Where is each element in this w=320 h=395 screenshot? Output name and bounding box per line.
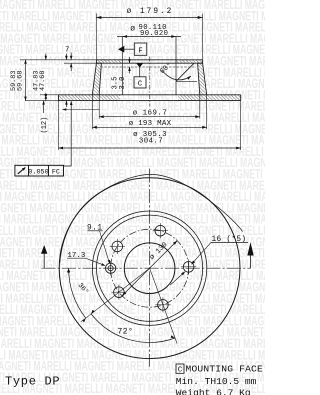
dim dia193 ext lines bbox=[91, 95, 93, 130]
runout leader bbox=[64, 101, 72, 166]
dim dia130 diagonal line bbox=[122, 241, 177, 296]
runout symbol bbox=[18, 168, 26, 174]
svg-text:7: 7 bbox=[65, 47, 69, 55]
svg-text:FC: FC bbox=[52, 169, 60, 177]
bolt circle (dash-dot) bbox=[111, 229, 189, 307]
dim 3.5/3.0 arrows bbox=[129, 57, 131, 63]
note datum C box bbox=[176, 364, 184, 373]
svg-text:36°: 36° bbox=[76, 281, 91, 296]
ext ring bottom left bbox=[25, 100, 59, 102]
datum F leader bbox=[124, 48, 134, 50]
section arrow left bbox=[43, 253, 45, 269]
svg-text:0.050: 0.050 bbox=[28, 169, 48, 177]
bolt hole 2 bbox=[155, 225, 166, 236]
svg-text:304.7: 304.7 bbox=[139, 138, 163, 146]
dim dia193 line bbox=[92, 126, 206, 128]
leader arc to 16(x5) label bbox=[60, 174, 243, 263]
svg-text:72°: 72° bbox=[118, 328, 134, 337]
locating screw hole dia9.1/17.3 bbox=[106, 263, 116, 273]
dim 47.83 line bbox=[45, 54, 47, 60]
svg-text:Type DP: Type DP bbox=[5, 375, 60, 389]
hat base circle dia193 bbox=[92, 211, 206, 325]
friction ring outline bbox=[59, 94, 93, 96]
radial line 218deg bbox=[81, 268, 150, 322]
ext ring top left bbox=[40, 94, 59, 96]
svg-text:ø 193 MAX: ø 193 MAX bbox=[129, 120, 172, 128]
friction ring left hatched section bbox=[59, 95, 121, 101]
svg-text:C: C bbox=[138, 81, 143, 89]
dim dia90.110/90.020 line bbox=[117, 36, 181, 38]
dim 59.83 line bbox=[25, 60, 27, 101]
36deg angle arc bbox=[69, 268, 86, 318]
dim line at ring bottom bbox=[65, 54, 67, 60]
svg-text:Weight 6.7 Kg: Weight 6.7 Kg bbox=[176, 387, 251, 395]
runout tolerance frame box bbox=[15, 165, 64, 176]
chamfer angle reference line bbox=[176, 80, 197, 82]
flange circle dia179 bbox=[97, 215, 203, 321]
svg-text:Min. TH10.5 mm: Min. TH10.5 mm bbox=[176, 376, 257, 387]
opposing arrow at bolt hole bbox=[170, 272, 185, 285]
dim 7 arrows bbox=[70, 53, 72, 60]
dim dia179.2 line bbox=[96, 17, 202, 19]
svg-text:C: C bbox=[178, 367, 183, 375]
svg-text:59.68: 59.68 bbox=[17, 71, 25, 91]
flange end edges bbox=[95, 60, 97, 63]
ext mounting face top bbox=[20, 59, 96, 61]
dim dia305.3 ext lines bbox=[58, 101, 60, 150]
leader under ring bbox=[62, 109, 99, 111]
svg-text:ø 169.7: ø 169.7 bbox=[133, 110, 168, 118]
svg-text:F: F bbox=[138, 48, 143, 56]
bore chamfer cone 60deg bbox=[176, 63, 194, 81]
svg-text:ø 179.2: ø 179.2 bbox=[127, 8, 174, 16]
horizontal centerline bbox=[42, 267, 251, 269]
datum C triangle bbox=[136, 63, 143, 67]
72deg angle arc bbox=[91, 314, 175, 343]
svg-text:ø: ø bbox=[130, 25, 135, 34]
hat flange hatched right bbox=[176, 60, 203, 63]
dim dia179.2 extension lines bbox=[95, 14, 97, 60]
section centerline bbox=[149, 57, 151, 107]
datum C box bbox=[134, 77, 146, 88]
dim dia305.3 line bbox=[59, 147, 241, 149]
vertical centerline bbox=[149, 169, 151, 367]
section arrow right bbox=[250, 255, 252, 269]
svg-text:3.0: 3.0 bbox=[119, 77, 127, 90]
datum F box bbox=[134, 43, 147, 55]
right hat wall hatched bbox=[198, 63, 207, 95]
dim dia169.7 line bbox=[99, 116, 200, 118]
friction ring right hatched section bbox=[178, 95, 241, 101]
hat flange hatched left bbox=[96, 60, 122, 63]
hidden line (pad surface) bbox=[101, 66, 197, 68]
svg-text:(12): (12) bbox=[41, 117, 49, 134]
center bore circle bbox=[124, 243, 175, 294]
bolt hole 5 bbox=[158, 300, 169, 311]
60deg angle arc bbox=[162, 71, 191, 80]
disc outer circle bbox=[59, 178, 240, 359]
left hat wall hatched bbox=[92, 63, 101, 95]
svg-text:17.3: 17.3 bbox=[67, 252, 86, 260]
bolt hole 3 bbox=[112, 241, 123, 252]
ext flange bottom bbox=[64, 62, 96, 64]
radial line 290deg bbox=[150, 268, 177, 343]
svg-text:47.68: 47.68 bbox=[39, 71, 47, 91]
bolt hole 1 bbox=[183, 262, 194, 273]
svg-text:MOUNTING FACE: MOUNTING FACE bbox=[186, 363, 263, 374]
hat flange outline bbox=[96, 59, 202, 61]
bolt hole 4 bbox=[114, 287, 125, 298]
datum F triangle bbox=[118, 46, 124, 53]
svg-text:90.020: 90.020 bbox=[140, 30, 168, 38]
dim dia169.7 ext lines bbox=[98, 95, 100, 119]
datum C leader bbox=[139, 67, 141, 76]
dim (12) line bbox=[43, 101, 45, 113]
svg-text:16 (*5): 16 (*5) bbox=[212, 236, 247, 244]
bore left edge / dim extension bbox=[121, 37, 123, 95]
bore right edge bbox=[175, 37, 177, 95]
